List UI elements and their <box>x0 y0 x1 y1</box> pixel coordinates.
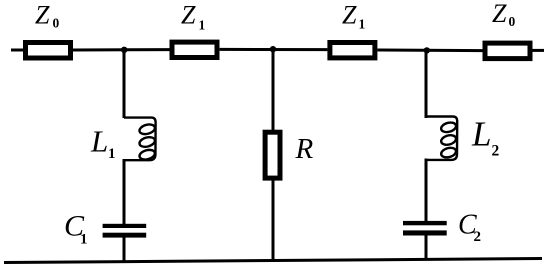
node junction dot (top of L2/C2 branch) <box>424 47 430 53</box>
inductor L1 (coil) <box>124 118 156 161</box>
svg-text:2: 2 <box>474 229 482 245</box>
wire: vertical from middle node down to resistor R <box>272 49 275 131</box>
svg-text:L: L <box>90 124 108 159</box>
node junction dot (top of L1/C1 branch) <box>121 47 127 53</box>
svg-text:L: L <box>471 115 491 154</box>
impedance box Z0 (right series element) <box>485 43 530 59</box>
label L2 <box>471 115 500 160</box>
label C2 <box>458 210 481 245</box>
wire: top rail right stub <box>532 49 544 52</box>
label L1 <box>90 124 116 163</box>
svg-text:1: 1 <box>108 146 116 162</box>
wire: top rail segment between Z0 and first Z1 <box>73 48 170 51</box>
wire: top rail left stub <box>11 49 25 52</box>
wire: vertical from node A down to inductor L1 <box>123 50 126 118</box>
wire: vertical from resistor R down to bottom rail <box>272 179 275 261</box>
wire: vertical from capacitor C1 down to bottom rail <box>123 236 126 263</box>
svg-text:Z: Z <box>342 1 357 30</box>
svg-text:2: 2 <box>492 143 500 160</box>
svg-text:Z: Z <box>35 1 50 30</box>
impedance box Z1 (third series element) <box>330 43 375 58</box>
svg-text:Z: Z <box>492 0 507 28</box>
impedance box Z1 (second series element) <box>172 42 217 57</box>
capacitor C2 (two plates) <box>403 221 447 236</box>
node junction dot (top of R branch) <box>270 46 276 52</box>
impedance box Z0 (left series element) <box>26 43 71 59</box>
svg-text:0: 0 <box>509 14 516 29</box>
svg-text:Z: Z <box>181 1 196 30</box>
label Z0 (right) <box>492 0 516 29</box>
wire: vertical from inductor L2 down to capacitor C2 <box>425 159 428 225</box>
inductor L2 (coil) <box>426 117 457 160</box>
label Z1 (second) <box>181 1 206 33</box>
svg-text:1: 1 <box>359 17 366 32</box>
svg-text:0: 0 <box>53 16 60 31</box>
wire: vertical from right node down to inductor L2 <box>425 50 428 118</box>
svg-text:1: 1 <box>199 18 206 33</box>
label Z1 (third) <box>342 1 366 32</box>
label C1 <box>64 210 88 248</box>
capacitor C1 (two plates) <box>103 224 147 238</box>
wire: vertical from capacitor C2 down to bottom rail <box>425 234 428 260</box>
svg-text:1: 1 <box>80 232 88 248</box>
svg-text:R: R <box>295 133 314 165</box>
resistor R (vertical box) <box>265 132 280 178</box>
label Z0 (left) <box>35 1 60 31</box>
wire: top rail segment between the two Z1 boxes <box>220 48 328 51</box>
wire: top rail segment between Z1 and right Z0 <box>378 49 483 53</box>
wire: vertical from inductor L1 down to capacitor C1 <box>123 159 126 225</box>
wire: bottom rail (ground return) <box>4 259 542 263</box>
